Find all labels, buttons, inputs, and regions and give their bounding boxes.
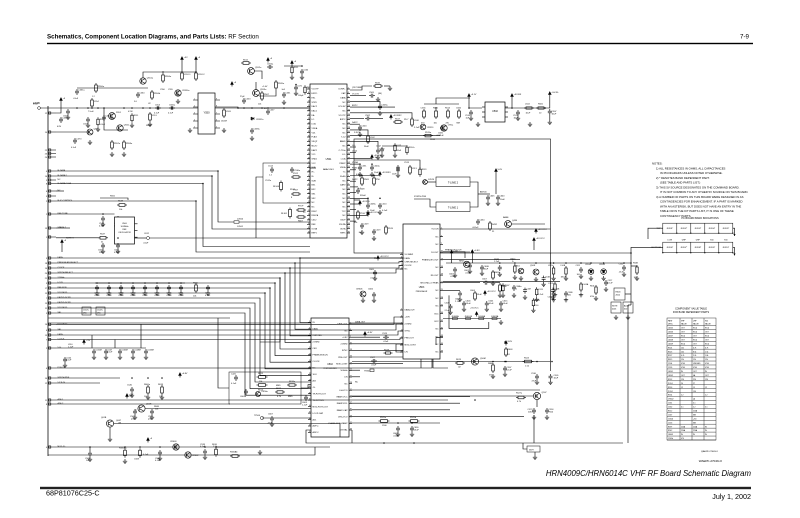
svg-text:10uF: 10uF xyxy=(554,378,559,380)
wire ramp wire 2 xyxy=(352,396,470,398)
svg-text:5.0V: 5.0V xyxy=(498,169,503,171)
svg-text:D551: D551 xyxy=(116,112,122,114)
VCO shield enclosure xyxy=(354,139,551,253)
capacitor C547 xyxy=(104,349,108,355)
ground C608j xyxy=(448,310,452,314)
svg-text:R553: R553 xyxy=(668,387,672,389)
wire bus to U503 data xyxy=(260,278,280,342)
svg-text:CR552a: CR552a xyxy=(256,119,264,121)
wire jtab left wire bottom xyxy=(631,247,663,253)
svg-text:C561a: C561a xyxy=(78,90,85,92)
U501 left pins xyxy=(307,89,310,233)
wire bus line 8 from J200B xyxy=(56,313,311,395)
capacitor C570 xyxy=(73,138,77,144)
capacitor C557 xyxy=(266,109,270,115)
ground under R552a xyxy=(110,152,114,156)
svg-text:R552a: R552a xyxy=(114,143,121,145)
svg-text:1) ALL RESISTANCES IN OHMS, AL: 1) ALL RESISTANCES IN OHMS, ALL CAPACITA… xyxy=(656,167,726,171)
wire U503 loop wire 2 xyxy=(436,338,443,345)
ground C529 xyxy=(360,230,364,234)
svg-text:C561: C561 xyxy=(668,403,672,405)
svg-text:C562: C562 xyxy=(365,115,371,117)
svg-text:CR551: CR551 xyxy=(427,127,434,129)
capacitor C558a xyxy=(250,128,254,134)
resistor R517 xyxy=(393,121,403,124)
svg-text:120: 120 xyxy=(681,379,684,381)
ground C535 xyxy=(548,380,552,384)
svg-text:LO-A: LO-A xyxy=(352,150,357,153)
resistor R616q xyxy=(492,270,495,280)
ground R600 note box xyxy=(614,315,618,319)
svg-text:1.5k: 1.5k xyxy=(705,351,708,353)
ground C506 xyxy=(167,291,171,295)
ground C540 tk xyxy=(622,272,626,276)
svg-text:2.1MHz: 2.1MHz xyxy=(405,324,412,326)
wire U501 right y209 xyxy=(350,209,356,211)
svg-text:C607: C607 xyxy=(268,414,274,416)
svg-text:120: 120 xyxy=(705,379,708,381)
svg-text:XSLP: XSLP xyxy=(340,220,346,222)
capacitor C508b xyxy=(356,188,360,194)
ground Y550 right xyxy=(222,128,226,132)
ground C605jb xyxy=(485,307,489,311)
ground C503 xyxy=(131,291,135,295)
power +5V-VCC1 xyxy=(367,212,370,217)
capacitor C568a xyxy=(158,450,162,456)
wire U502 sync wire xyxy=(352,349,403,351)
svg-text:FLAG: FLAG xyxy=(340,175,346,178)
svg-text:C556a: C556a xyxy=(267,63,274,65)
svg-text:TABLE OR IN THE KIT PARTS LIST: TABLE OR IN THE KIT PARTS LIST, IT IS ON… xyxy=(660,209,734,213)
ground C559 xyxy=(86,123,90,127)
svg-text:C434: C434 xyxy=(479,220,485,222)
svg-text:WITH AN ASTERISK, BUT DOES NOT: WITH AN ASTERISK, BUT DOES NOT HAVE AN E… xyxy=(660,204,741,208)
svg-text:LOOP-CAP: LOOP-CAP xyxy=(313,412,324,415)
transistor Q570 xyxy=(138,405,145,412)
transistor Q550 xyxy=(117,125,123,131)
capacitor C561a xyxy=(75,89,79,95)
ground R508 tk xyxy=(635,276,639,280)
ground C565b xyxy=(133,415,137,419)
ground R528t xyxy=(531,308,535,312)
antenna input pad xyxy=(38,107,41,110)
wire ramp wire q507 xyxy=(352,395,533,397)
ground C519b xyxy=(376,155,380,159)
svg-text:RF-OUT: RF-OUT xyxy=(431,275,439,277)
inductor L552-1 xyxy=(181,71,184,81)
svg-text:6.8V: 6.8V xyxy=(57,126,62,128)
wire SPARE-2 wire xyxy=(56,227,70,229)
svg-text:+4.8V: +4.8V xyxy=(474,250,480,252)
svg-text:DATA: DATA xyxy=(340,96,346,99)
jumper JU524 pad xyxy=(423,180,428,185)
svg-text:CR505: CR505 xyxy=(585,264,591,266)
svg-text:C606: C606 xyxy=(368,289,374,291)
ground under CR550a xyxy=(176,99,180,103)
resistor R607c xyxy=(296,216,306,218)
capacitor C530a blk xyxy=(290,167,294,173)
ground C551 xyxy=(116,249,120,253)
capacitor C516 xyxy=(469,110,473,116)
t-line 2 box xyxy=(436,177,470,187)
svg-text:R527a: R527a xyxy=(516,393,523,395)
svg-text:CAP: CAP xyxy=(341,92,346,95)
svg-text:5: 5 xyxy=(194,127,195,129)
svg-text:Schematics, Component Location: Schematics, Component Location Diagrams,… xyxy=(47,34,259,41)
svg-text:R618: R618 xyxy=(158,384,164,386)
svg-text:PS12: PS12 xyxy=(293,173,299,175)
svg-text:C504a: C504a xyxy=(373,166,380,168)
svg-text:R560Ab: R560Ab xyxy=(230,451,238,454)
capacitor C640v xyxy=(496,195,500,201)
loop filter box xyxy=(229,372,301,404)
svg-text:R51Za: R51Za xyxy=(409,147,416,149)
svg-text:+5V-RX2: +5V-RX2 xyxy=(393,115,403,117)
wire U502 500k wire xyxy=(352,369,360,371)
power +5V-RX2 xyxy=(390,115,393,120)
ground C54B tk xyxy=(551,298,555,302)
svg-text:+4.8V: +4.8V xyxy=(405,317,411,319)
svg-text:VCOTP: VCOTP xyxy=(312,89,320,91)
svg-text:NC: NC xyxy=(343,145,346,147)
crystal Y550 pins xyxy=(193,100,220,128)
ground C561 xyxy=(179,291,183,295)
wire ramp wire 3 xyxy=(352,402,460,404)
capacitor C604a xyxy=(244,389,248,395)
resistor R552a xyxy=(111,140,114,150)
ground R616q xyxy=(491,281,495,285)
svg-text:R432: R432 xyxy=(492,224,498,226)
capacitor C540b xyxy=(130,387,134,393)
svg-text:BXPC: BXPC xyxy=(340,119,346,121)
svg-text:COMP+: COMP+ xyxy=(338,89,346,91)
svg-text:R525b: R525b xyxy=(410,417,417,419)
svg-text:NC: NC xyxy=(436,244,439,246)
power +4.8V u502 xyxy=(364,332,367,337)
ground CR505B xyxy=(601,276,605,280)
capacitor C561 rail xyxy=(179,285,183,291)
svg-text:C547a: C547a xyxy=(97,310,104,312)
wire bus drop DATA U502 xyxy=(300,258,311,323)
svg-text:R613: R613 xyxy=(258,373,264,375)
wire R508 tap xyxy=(631,265,637,267)
power +5V top mid xyxy=(231,82,234,87)
svg-text:A.B.: A.B. xyxy=(313,418,317,421)
capacitor C540 tk xyxy=(622,265,626,271)
capacitor C507b xyxy=(503,366,507,372)
capacitor C502a xyxy=(365,117,371,121)
resistor R508 tk xyxy=(636,265,638,275)
svg-text:7-9: 7-9 xyxy=(740,34,750,41)
svg-text:CR502: CR502 xyxy=(668,399,673,401)
svg-text:R50B: R50B xyxy=(633,263,639,265)
svg-text:R600a: R600a xyxy=(144,384,151,386)
capacitor C605 bc xyxy=(396,426,400,432)
component R600 note box xyxy=(611,302,621,313)
svg-text:HRN4009C/HRN6014C VHF RF Board: HRN4009C/HRN6014C VHF RF Board Schematic… xyxy=(546,469,752,478)
svg-text:NC: NC xyxy=(343,198,346,200)
wire jtab bottom right wire xyxy=(733,247,735,255)
U502 left pins xyxy=(308,323,311,433)
transistor Q569 xyxy=(135,409,137,412)
U503 left pins xyxy=(400,255,403,270)
svg-text:R554: R554 xyxy=(668,395,672,397)
svg-text:10uF: 10uF xyxy=(526,113,531,115)
svg-text:R519: R519 xyxy=(388,228,394,230)
wire bus long to prescaler 1 xyxy=(300,258,403,262)
ground C560f xyxy=(300,75,304,79)
svg-text:R551: R551 xyxy=(134,115,139,117)
t-line 1 box xyxy=(436,202,470,212)
wire data line lower xyxy=(56,331,403,335)
capacitor C511 tk xyxy=(498,265,502,271)
wire C502a on xyxy=(371,118,383,120)
svg-text:.01uF: .01uF xyxy=(383,341,389,343)
svg-text:FOR BAND DEPENDENT PARTS: FOR BAND DEPENDENT PARTS xyxy=(673,311,710,314)
power +5 topright xyxy=(267,58,270,63)
svg-text:0.1: 0.1 xyxy=(693,403,695,405)
svg-text:9: 9 xyxy=(216,99,217,101)
ground C511 tk xyxy=(498,272,502,276)
wire U503 bc wires xyxy=(396,344,403,352)
wire U502 48v wire xyxy=(352,336,380,338)
detector CR550a xyxy=(175,90,181,96)
svg-text:VCOTP: VCOTP xyxy=(338,115,346,117)
arrow jtab top xyxy=(733,234,735,236)
ground C568a xyxy=(158,456,162,460)
wire jtab top right wire xyxy=(733,228,735,236)
svg-text:CHG-VCO: CHG-VCO xyxy=(338,416,348,418)
svg-text:C504: C504 xyxy=(361,126,367,128)
svg-text:NC: NC xyxy=(312,202,315,204)
svg-text:NC: NC xyxy=(343,215,346,217)
ground C56B tk xyxy=(564,298,568,302)
U503 left pin names xyxy=(405,254,419,354)
svg-text:C51Z: C51Z xyxy=(376,146,382,148)
inductor L51Z xyxy=(394,143,396,153)
header rule xyxy=(47,43,753,44)
capacitor C501 rail xyxy=(206,285,210,291)
svg-text:4700: 4700 xyxy=(693,367,697,369)
ground 5679 xyxy=(533,455,537,459)
wire U501 right y147 LO xyxy=(350,146,356,148)
capacitor C54Bt xyxy=(551,288,555,294)
capacitor C550 xyxy=(101,243,105,249)
svg-text:ANT04: ANT04 xyxy=(480,191,487,194)
svg-text:CR51: CR51 xyxy=(515,266,521,268)
svg-text:2.1uF: 2.1uF xyxy=(445,310,451,312)
svg-text:POS1: POS1 xyxy=(668,383,673,385)
svg-text:SYNC: SYNC xyxy=(405,331,411,333)
wire U501 right y118 xyxy=(350,118,364,120)
wire vcc tank drop xyxy=(533,243,535,251)
capacitor C508c xyxy=(366,203,370,209)
wire U504 out rail xyxy=(505,107,545,109)
svg-text:OUTA: OUTA xyxy=(340,227,346,230)
power +5 topcluster xyxy=(291,61,294,66)
component AU20 box xyxy=(623,302,633,313)
svg-text:DAC1: DAC1 xyxy=(312,110,318,113)
svg-text:C553M: C553M xyxy=(147,349,154,351)
svg-text:VDDA: VDDA xyxy=(312,127,318,130)
capacitor C503 rail xyxy=(131,285,135,291)
wire enclosure internal wire xyxy=(354,160,420,169)
svg-text:.01uF: .01uF xyxy=(466,303,472,305)
wire C534 to bus xyxy=(533,415,535,443)
test point C612 xyxy=(147,237,150,240)
resistor R528t xyxy=(532,298,534,308)
ground L505A tk2 xyxy=(579,293,583,297)
power +5V J200B xyxy=(60,98,63,103)
svg-text:3) THIS 5V SOURCE DESIGNATES O: 3) THIS 5V SOURCE DESIGNATES ON THE COMM… xyxy=(656,186,740,190)
U503 left pins lower xyxy=(400,310,403,352)
svg-text:R532: R532 xyxy=(375,83,381,85)
wire ramp wire main xyxy=(352,361,551,363)
ground Y550 left xyxy=(188,128,192,132)
svg-text:10uF: 10uF xyxy=(374,172,379,174)
footer rule xyxy=(40,487,751,489)
svg-text:Q50K: Q50K xyxy=(530,265,536,267)
capacitor C434 xyxy=(476,219,480,225)
capacitor C563f xyxy=(66,109,70,115)
svg-text:6: 6 xyxy=(216,120,217,122)
ground C538 xyxy=(119,291,123,295)
svg-text:CR550a: CR550a xyxy=(182,90,190,92)
capacitor C615j xyxy=(499,301,503,307)
svg-text:DAC2: DAC2 xyxy=(352,121,358,124)
svg-text:2: 2 xyxy=(194,106,195,108)
svg-text:68P81076C25-C: 68P81076C25-C xyxy=(46,489,100,498)
svg-text:0.1uF: 0.1uF xyxy=(168,113,174,115)
wire bus line 7 from J200B xyxy=(56,308,311,389)
svg-text:7: 7 xyxy=(216,113,217,115)
resistor R560a xyxy=(124,448,127,458)
ground C609p xyxy=(458,297,462,301)
ground R608p xyxy=(498,293,502,297)
capacitor C554 xyxy=(155,106,161,110)
svg-text:4: 4 xyxy=(194,120,195,122)
svg-text:C567: C567 xyxy=(668,414,672,416)
wire gate wire xyxy=(77,87,148,89)
svg-text:100: 100 xyxy=(535,305,538,307)
svg-text:LOA: LOA xyxy=(312,123,317,126)
component TH401 xyxy=(370,369,374,372)
power +5.1V xyxy=(468,94,471,99)
inductor L552-2 xyxy=(195,71,198,81)
wire q507 emitter down xyxy=(536,400,538,407)
ground C505 xyxy=(155,291,159,295)
svg-text:MED: MED xyxy=(288,396,293,398)
wire U501 right y158 to FIL xyxy=(350,157,372,159)
wire U501 right y135 to enclosure xyxy=(350,135,440,137)
capacitor C630 bc xyxy=(410,426,414,432)
wire wire 5.8L M xyxy=(350,130,368,134)
varactor CR505B xyxy=(601,269,607,275)
svg-text:CHIP-SEL: CHIP-SEL xyxy=(313,335,323,337)
wire U501 topright staircase1 xyxy=(349,89,351,91)
wire U503 5vout wire xyxy=(443,251,470,253)
diode CR551 xyxy=(420,124,426,130)
wire U501 right y198 xyxy=(350,198,368,203)
wire ramp corner down xyxy=(550,362,552,372)
wire clock line lower xyxy=(56,338,403,340)
resistor R522f xyxy=(304,85,306,95)
wire bus line 1 from J200B xyxy=(56,278,311,349)
svg-text:.01uF: .01uF xyxy=(100,124,106,126)
ground AU20 box xyxy=(626,315,630,319)
ground C517 tk xyxy=(604,287,608,291)
wire cluster top rail xyxy=(424,103,459,105)
ground C504b xyxy=(358,132,362,136)
capacitor C528 xyxy=(383,335,389,339)
svg-text:+5V-F1L: +5V-F1L xyxy=(362,201,371,203)
ground C530bc xyxy=(535,380,539,384)
ground C508c xyxy=(366,210,370,214)
svg-text:+4.8V: +4.8V xyxy=(342,337,348,339)
arrow in CR550a xyxy=(177,90,179,95)
transistor Q552 xyxy=(248,68,255,75)
svg-text:.01uF: .01uF xyxy=(414,430,420,432)
wire q571 wire right xyxy=(114,424,340,438)
capacitor C607q xyxy=(453,267,457,273)
wire jtab left wire top xyxy=(648,228,663,239)
svg-text:REF1: REF1 xyxy=(340,233,346,235)
svg-text:L50B: L50B xyxy=(561,265,566,267)
ground CR606 xyxy=(361,298,365,302)
transistor Q507b xyxy=(533,392,540,399)
svg-text:VCCTO: VCCTO xyxy=(352,94,360,96)
svg-text:U501: U501 xyxy=(326,158,332,161)
svg-text:JU505: JU505 xyxy=(668,328,673,330)
wire bus IF-DATA-CLKA xyxy=(56,184,310,247)
svg-text:+5.1V: +5.1V xyxy=(471,94,477,96)
svg-text:12: 12 xyxy=(705,387,707,389)
svg-text:JU508: JU508 xyxy=(668,339,673,341)
svg-text:R519: R519 xyxy=(422,169,427,171)
wire enclosure gnd stub xyxy=(354,199,360,201)
svg-text:2.2k: 2.2k xyxy=(693,355,696,357)
wire bus SYNTH-SELECT to U503 xyxy=(56,269,403,273)
wire front-end input wire xyxy=(40,107,310,109)
svg-text:0.5W: 0.5W xyxy=(128,111,133,113)
wire cluster rail drop xyxy=(436,98,470,104)
ground C561c xyxy=(150,415,154,419)
svg-text:R525a: R525a xyxy=(380,417,387,419)
diode CR552a mark xyxy=(251,117,254,120)
svg-text:.01uF: .01uF xyxy=(503,303,509,305)
resistor R610m xyxy=(215,447,218,457)
ground C534 xyxy=(545,415,549,419)
svg-text:MED: MED xyxy=(276,385,281,387)
svg-text:MLZO: MLZO xyxy=(312,145,318,147)
svg-text:C530a: C530a xyxy=(294,170,301,172)
svg-text:DATA-OUT: DATA-OUT xyxy=(355,321,366,324)
capacitor C566 xyxy=(458,109,461,119)
svg-text:C508a: C508a xyxy=(369,204,376,206)
svg-text:C552M: C552M xyxy=(95,349,102,351)
power +5V-VCC vco xyxy=(535,229,538,234)
wire U501 right y181 DAP xyxy=(350,180,356,182)
svg-text:T-LINE 2: T-LINE 2 xyxy=(448,180,459,184)
wire enclosure bottom extension xyxy=(551,252,632,254)
svg-text:CR603: CR603 xyxy=(170,441,177,443)
svg-text:1.8k: 1.8k xyxy=(705,355,708,357)
wire U502 data-out wire xyxy=(352,323,403,325)
wire supply drop 2 xyxy=(195,62,197,73)
svg-text:SYNTH-PDN: SYNTH-PDN xyxy=(414,196,427,198)
svg-text:CR505: CR505 xyxy=(599,264,605,266)
resistor R524 bc xyxy=(523,360,534,363)
